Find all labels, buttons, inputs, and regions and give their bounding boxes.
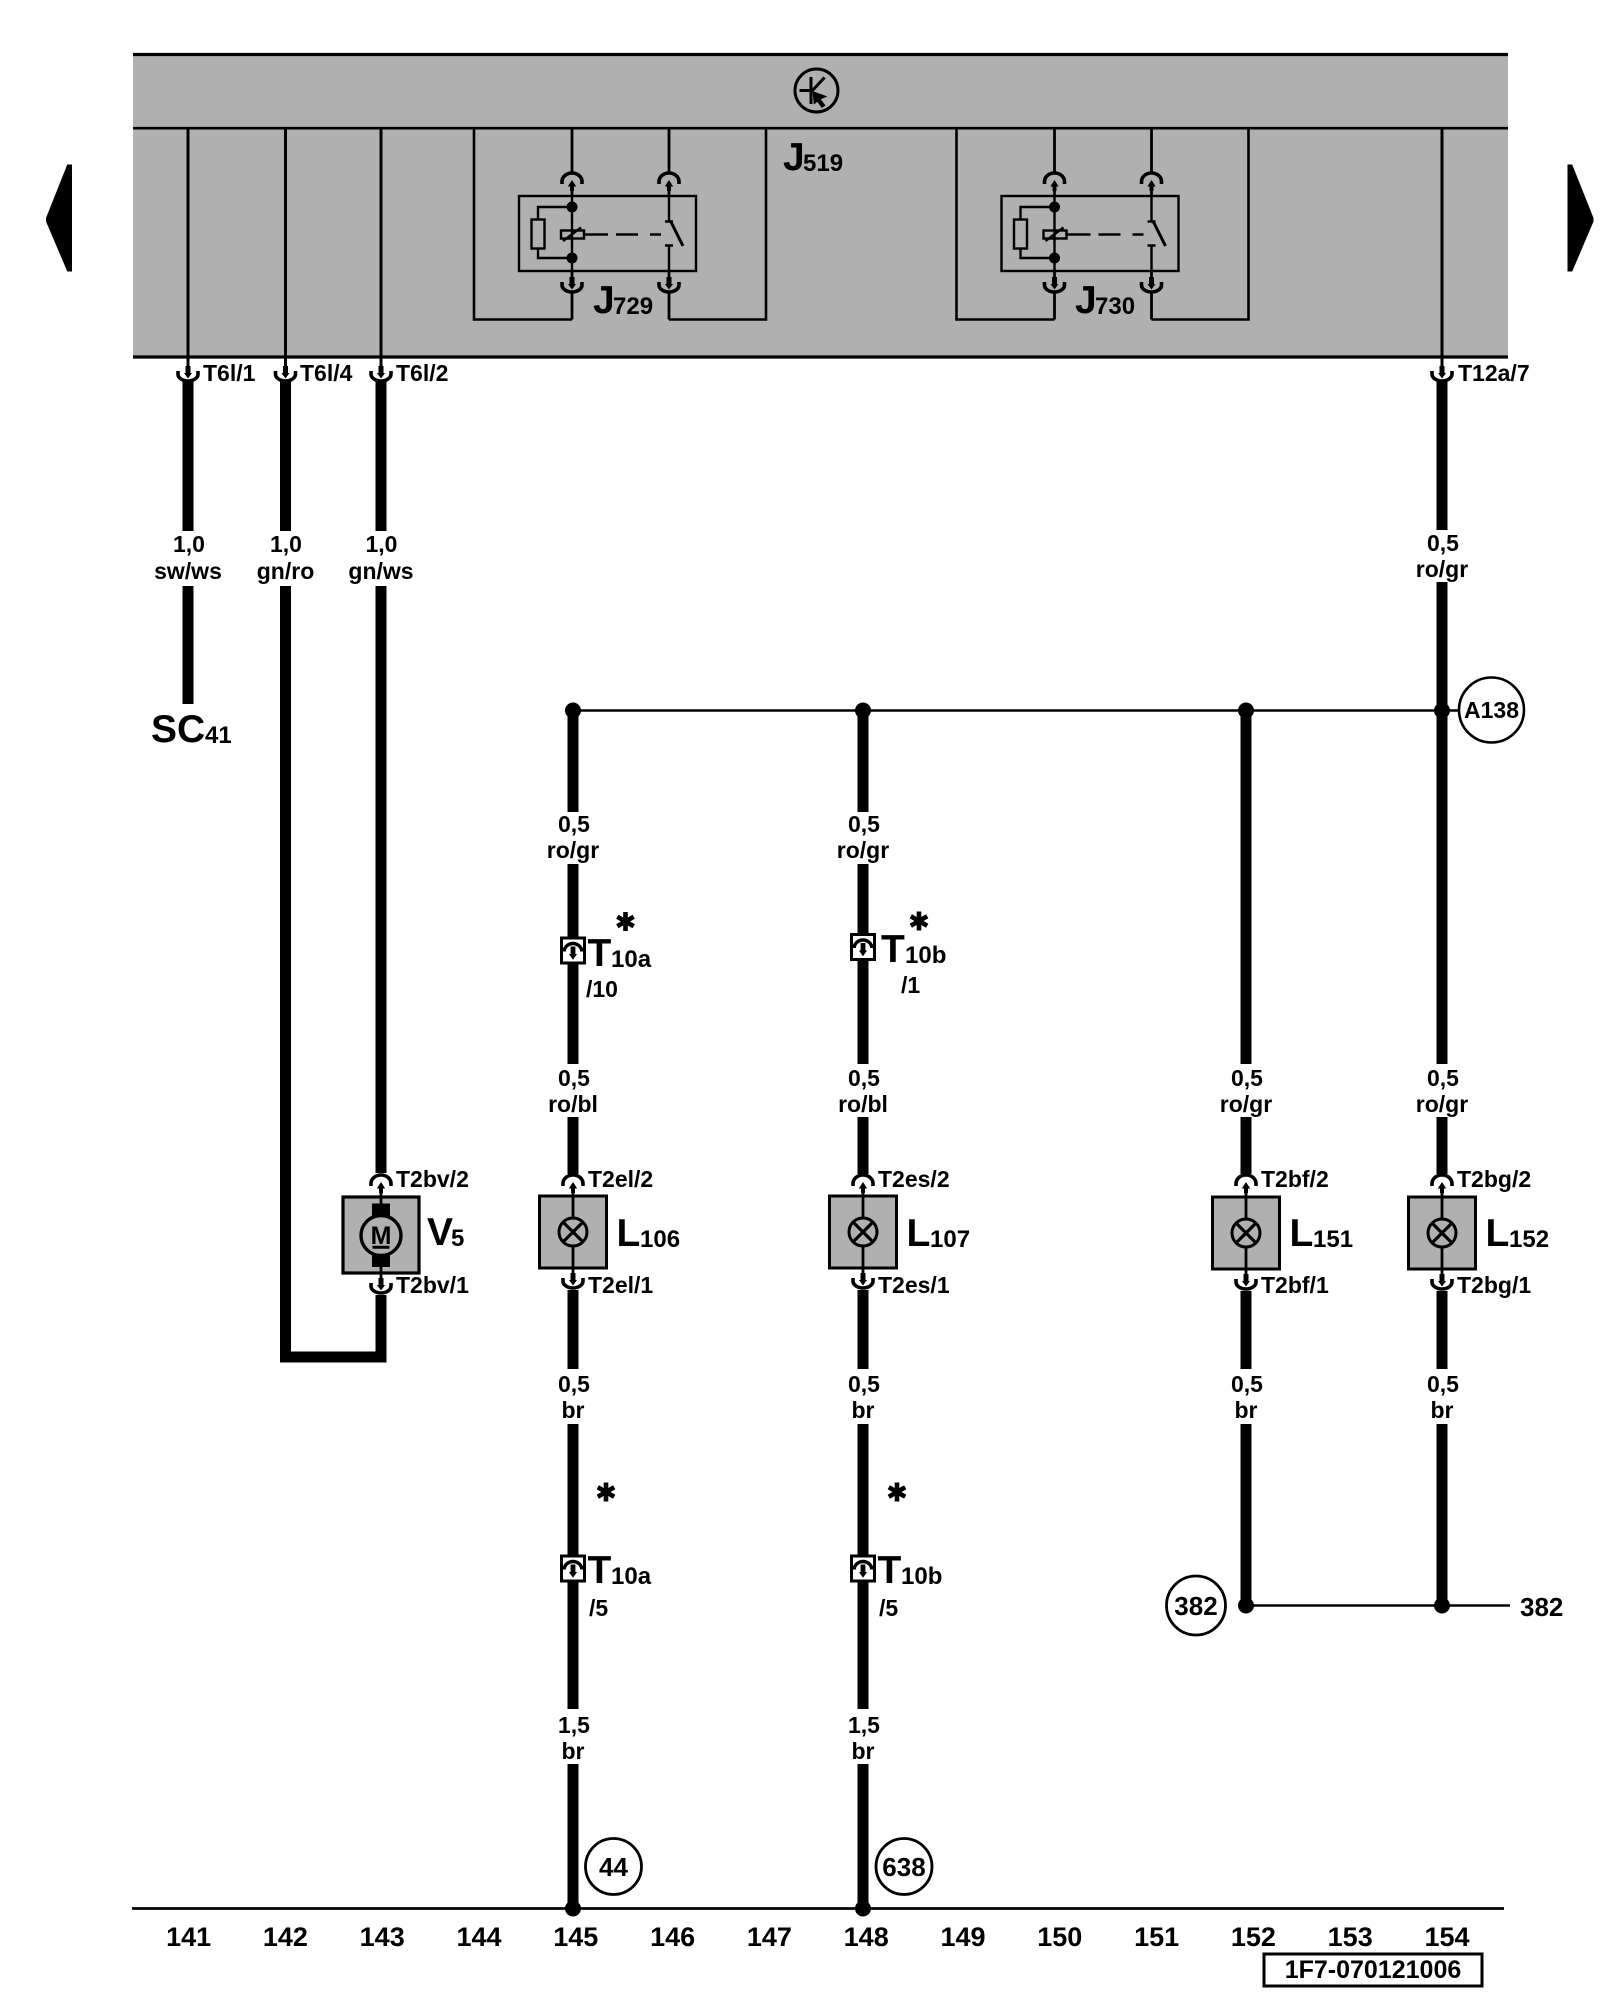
svg-text:/5: /5 — [589, 1595, 608, 1621]
J519 bottom edge — [133, 355, 1508, 358]
T10b label — [881, 928, 946, 971]
svg-text:146: 146 — [650, 1922, 695, 1952]
connector T2bv/2 — [371, 1166, 469, 1197]
L107 label — [907, 1212, 971, 1255]
svg-text:730: 730 — [1095, 293, 1135, 320]
asterisk note (T10a upper) — [617, 912, 633, 931]
svg-text:ro/gr: ro/gr — [837, 837, 889, 863]
svg-text:152: 152 — [1509, 1226, 1549, 1253]
svg-text:142: 142 — [263, 1922, 308, 1952]
control unit J519 body — [133, 53, 1508, 358]
svg-text:0,5: 0,5 — [1427, 1065, 1459, 1091]
wire 0,5 br (L106 ground) — [568, 1290, 579, 1369]
svg-text:729: 729 — [613, 293, 653, 320]
lamp L107 — [830, 1196, 897, 1268]
bottom current track rail — [132, 1907, 1504, 1910]
right direction arrow — [1568, 165, 1594, 272]
svg-text:sw/ws: sw/ws — [154, 558, 222, 584]
connector T2es/2 — [853, 1166, 950, 1196]
svg-text:ro/gr: ro/gr — [547, 837, 599, 863]
connector relay J729 switch top — [659, 173, 679, 191]
svg-text:br: br — [562, 1738, 585, 1764]
svg-text:ro/gr: ro/gr — [1220, 1091, 1272, 1117]
svg-text:10a: 10a — [611, 946, 652, 973]
node A138 — [1459, 678, 1524, 743]
svg-text:br: br — [562, 1397, 585, 1423]
svg-text:/5: /5 — [879, 1595, 898, 1621]
connector T10a/10 — [562, 938, 585, 963]
svg-text:T6l/4: T6l/4 — [300, 360, 353, 386]
node bus line to A138 — [573, 709, 1459, 712]
svg-text:J: J — [783, 136, 805, 179]
connector T2es/1 — [853, 1268, 950, 1298]
connector T2bf/1 — [1236, 1269, 1329, 1298]
J519 top edge — [133, 53, 1508, 56]
pin connector T12a/7 — [1432, 359, 1530, 387]
svg-text:T: T — [588, 1549, 612, 1592]
svg-text:T2bf/2: T2bf/2 — [1261, 1166, 1329, 1192]
asterisk note (T10b lower) — [889, 1483, 905, 1502]
svg-text:0,5: 0,5 — [848, 811, 880, 837]
wire relay J730 pin 1 (coil) — [1053, 128, 1056, 320]
connector T2bv/1 — [371, 1272, 469, 1298]
connector T2bf/2 — [1236, 1166, 1329, 1197]
svg-text:br: br — [1235, 1397, 1258, 1423]
junction dot 382 (L151) — [1238, 1598, 1254, 1614]
svg-text:5: 5 — [451, 1225, 464, 1252]
asterisk note (T10a lower) — [598, 1483, 614, 1502]
svg-text:1F7-070121006: 1F7-070121006 — [1285, 1956, 1462, 1984]
T10a label — [588, 932, 652, 975]
connector relay J730 switch bottom — [1142, 277, 1162, 292]
svg-text:J: J — [593, 279, 615, 322]
svg-text:1,5: 1,5 — [558, 1712, 590, 1738]
wire 0,5 ro/gr to T10b — [858, 711, 869, 813]
svg-text:44: 44 — [599, 1852, 628, 1882]
junction dot L107 branch — [855, 703, 871, 719]
svg-text:T6l/2: T6l/2 — [396, 360, 448, 386]
wire 0,5 br (L151 ground) — [1241, 1291, 1252, 1369]
svg-text:A138: A138 — [1464, 697, 1519, 723]
relay J729 — [519, 196, 696, 271]
ground point 638 — [876, 1839, 932, 1895]
svg-text:T2bv/1: T2bv/1 — [396, 1272, 469, 1298]
relay J730 socket outline — [957, 128, 1249, 320]
wire 0,5 br (L107 ground) — [858, 1290, 869, 1369]
svg-text:0,5: 0,5 — [558, 1065, 590, 1091]
V5 label — [427, 1211, 464, 1254]
junction dot ground 44 — [565, 1901, 581, 1917]
svg-text:J: J — [1075, 279, 1097, 322]
svg-text:153: 153 — [1328, 1922, 1373, 1952]
connector T2bg/2 — [1432, 1166, 1531, 1197]
svg-text:ro/gr: ro/gr — [1416, 556, 1468, 582]
svg-text:L: L — [617, 1212, 641, 1255]
svg-text:br: br — [1431, 1397, 1454, 1423]
connector relay J729 coil bottom — [562, 277, 582, 292]
svg-text:10a: 10a — [611, 1563, 652, 1590]
fuse SC41 label — [151, 708, 232, 751]
lamp L152 — [1409, 1197, 1476, 1269]
svg-text:152: 152 — [1231, 1922, 1276, 1952]
svg-text:T6l/1: T6l/1 — [203, 360, 256, 386]
T10b label (lower) — [878, 1549, 943, 1592]
L152 label — [1486, 1212, 1550, 1255]
svg-text:T2el/1: T2el/1 — [588, 1272, 653, 1298]
svg-text:br: br — [852, 1738, 875, 1764]
svg-text:T: T — [588, 932, 612, 975]
wire pin T6l/2 inside J519 — [380, 128, 383, 357]
svg-text:L: L — [1290, 1212, 1314, 1255]
svg-text:gn/ws: gn/ws — [348, 558, 413, 584]
left direction arrow — [46, 165, 72, 272]
svg-text:1,0: 1,0 — [366, 531, 398, 557]
connector T10b/5 — [852, 1556, 875, 1581]
pin connector T6l/4 — [276, 359, 353, 387]
wire pin T6l/1 inside J519 — [187, 128, 190, 357]
connector T2el/2 — [563, 1166, 653, 1196]
svg-text:143: 143 — [360, 1922, 405, 1952]
wire 1,5 br (L107) — [858, 1581, 869, 1709]
junction dot L106 branch — [565, 703, 581, 719]
svg-text:148: 148 — [844, 1922, 889, 1952]
junction dot ground 638 — [855, 1901, 871, 1917]
svg-text:1,5: 1,5 — [848, 1712, 880, 1738]
wire relay J729 pin 1 (coil) — [571, 128, 574, 320]
ground point 382 circle — [1167, 1576, 1226, 1635]
svg-text:0,5: 0,5 — [848, 1065, 880, 1091]
svg-text:/10: /10 — [586, 976, 618, 1002]
svg-text:107: 107 — [930, 1226, 970, 1253]
svg-text:V: V — [427, 1211, 453, 1254]
svg-text:106: 106 — [640, 1226, 680, 1253]
svg-text:T: T — [878, 1549, 902, 1592]
svg-text:151: 151 — [1134, 1922, 1179, 1952]
junction dot L152 branch — [1434, 703, 1450, 719]
relay J729 socket outline — [474, 128, 766, 320]
svg-text:gn/ro: gn/ro — [257, 558, 315, 584]
connector T2bg/1 — [1432, 1269, 1531, 1298]
wire relay J729 pin 2 (switch) — [668, 128, 671, 320]
J519 inner rail line — [133, 127, 1508, 130]
svg-text:151: 151 — [1313, 1226, 1353, 1253]
svg-text:638: 638 — [882, 1852, 925, 1882]
wire 1,0 gn/ws — [376, 381, 387, 532]
ground point 44 — [586, 1839, 642, 1895]
connector relay J730 coil top — [1045, 173, 1065, 191]
svg-text:0,5: 0,5 — [1427, 530, 1459, 556]
current track numbers — [166, 1922, 1469, 1952]
relay J730 — [1002, 196, 1179, 271]
svg-text:0,5: 0,5 — [558, 811, 590, 837]
svg-text:T2bg/2: T2bg/2 — [1457, 1166, 1531, 1192]
J729 label — [593, 279, 653, 322]
svg-text:41: 41 — [205, 722, 232, 749]
svg-text:10b: 10b — [901, 1563, 942, 1590]
svg-text:T: T — [881, 928, 905, 971]
pin connector T6l/1 — [178, 359, 256, 387]
connector T2el/1 — [563, 1268, 653, 1298]
connector T10b/1 — [852, 935, 875, 960]
svg-text:10b: 10b — [905, 942, 946, 969]
svg-text:/1: /1 — [901, 972, 920, 998]
svg-text:ro/bl: ro/bl — [548, 1091, 598, 1117]
svg-text:br: br — [852, 1397, 875, 1423]
T10a label (lower) — [588, 1549, 652, 1592]
svg-text:ro/gr: ro/gr — [1416, 1091, 1468, 1117]
svg-text:T2bv/2: T2bv/2 — [396, 1166, 469, 1192]
wire V5 ground link — [376, 1295, 387, 1363]
wire 0,5 ro/gr (L151) — [1241, 711, 1252, 1065]
svg-text:149: 149 — [940, 1922, 985, 1952]
svg-text:144: 144 — [456, 1922, 501, 1952]
svg-text:0,5: 0,5 — [1231, 1371, 1263, 1397]
svg-text:141: 141 — [166, 1922, 211, 1952]
wire 0,5 ro/bl (L107) — [858, 960, 869, 1065]
svg-text:T2es/2: T2es/2 — [878, 1166, 950, 1192]
J730 label — [1075, 279, 1135, 322]
K symbol (circle with arrow) — [795, 69, 838, 112]
svg-text:150: 150 — [1037, 1922, 1082, 1952]
svg-text:145: 145 — [553, 1922, 598, 1952]
wire node 382 link — [1246, 1604, 1510, 1607]
L106 label — [617, 1212, 681, 1255]
svg-text:ro/bl: ro/bl — [838, 1091, 888, 1117]
connector T10a/5 — [562, 1556, 585, 1581]
wire 0,5 ro/gr (L152) — [1416, 1065, 1468, 1117]
svg-text:382: 382 — [1520, 1592, 1563, 1622]
svg-text:1,0: 1,0 — [270, 531, 302, 557]
connector relay J730 switch top — [1142, 173, 1162, 191]
connector relay J730 coil bottom — [1045, 277, 1065, 292]
svg-text:T2es/1: T2es/1 — [878, 1272, 950, 1298]
lamp L151 — [1213, 1197, 1280, 1269]
wire pin T6l/4 inside J519 — [284, 128, 287, 357]
svg-text:T2bf/1: T2bf/1 — [1261, 1272, 1329, 1298]
wire 0,5 ro/bl — [568, 963, 579, 1064]
svg-text:519: 519 — [803, 150, 843, 177]
svg-text:T2bg/1: T2bg/1 — [1457, 1272, 1531, 1298]
svg-text:0,5: 0,5 — [1231, 1065, 1263, 1091]
svg-text:154: 154 — [1424, 1922, 1469, 1952]
wire 1,0 sw/ws (SC41 feed) — [183, 381, 194, 532]
svg-text:T2el/2: T2el/2 — [588, 1166, 653, 1192]
svg-text:L: L — [907, 1212, 931, 1255]
wire 0,5 br (L152 ground) — [1437, 1291, 1448, 1369]
svg-text:382: 382 — [1174, 1591, 1217, 1621]
connector relay J729 coil top — [562, 173, 582, 191]
wire 0,5 ro/gr (T12a/7 feed) — [1437, 381, 1448, 531]
wire pin T12a/7 inside J519 — [1441, 128, 1444, 357]
svg-text:147: 147 — [747, 1922, 792, 1952]
junction dot L151 branch — [1238, 703, 1254, 719]
svg-text:0,5: 0,5 — [848, 1371, 880, 1397]
asterisk note (T10b upper) — [911, 912, 927, 931]
wire 0,5 ro/gr to T10a — [568, 711, 579, 813]
pin connector T6l/2 — [371, 359, 448, 387]
svg-text:0,5: 0,5 — [558, 1371, 590, 1397]
wire 1,5 br — [568, 1581, 579, 1709]
L151 label — [1290, 1212, 1354, 1255]
lamp L106 — [540, 1196, 607, 1268]
svg-text:SC: SC — [151, 708, 205, 751]
wire relay J730 pin 2 (switch) — [1150, 128, 1153, 320]
diagram id box 1F7-070121006 — [1264, 1954, 1482, 1986]
connector relay J729 switch bottom — [659, 277, 679, 292]
svg-text:L: L — [1486, 1212, 1510, 1255]
J519 label — [783, 136, 843, 179]
svg-text:T12a/7: T12a/7 — [1458, 360, 1530, 386]
motor V5 — [343, 1197, 419, 1273]
svg-text:0,5: 0,5 — [1427, 1371, 1459, 1397]
wire 1,0 gn/ro — [280, 381, 291, 532]
junction dot 382 (L152) — [1434, 1598, 1450, 1614]
svg-text:1,0: 1,0 — [173, 531, 205, 557]
